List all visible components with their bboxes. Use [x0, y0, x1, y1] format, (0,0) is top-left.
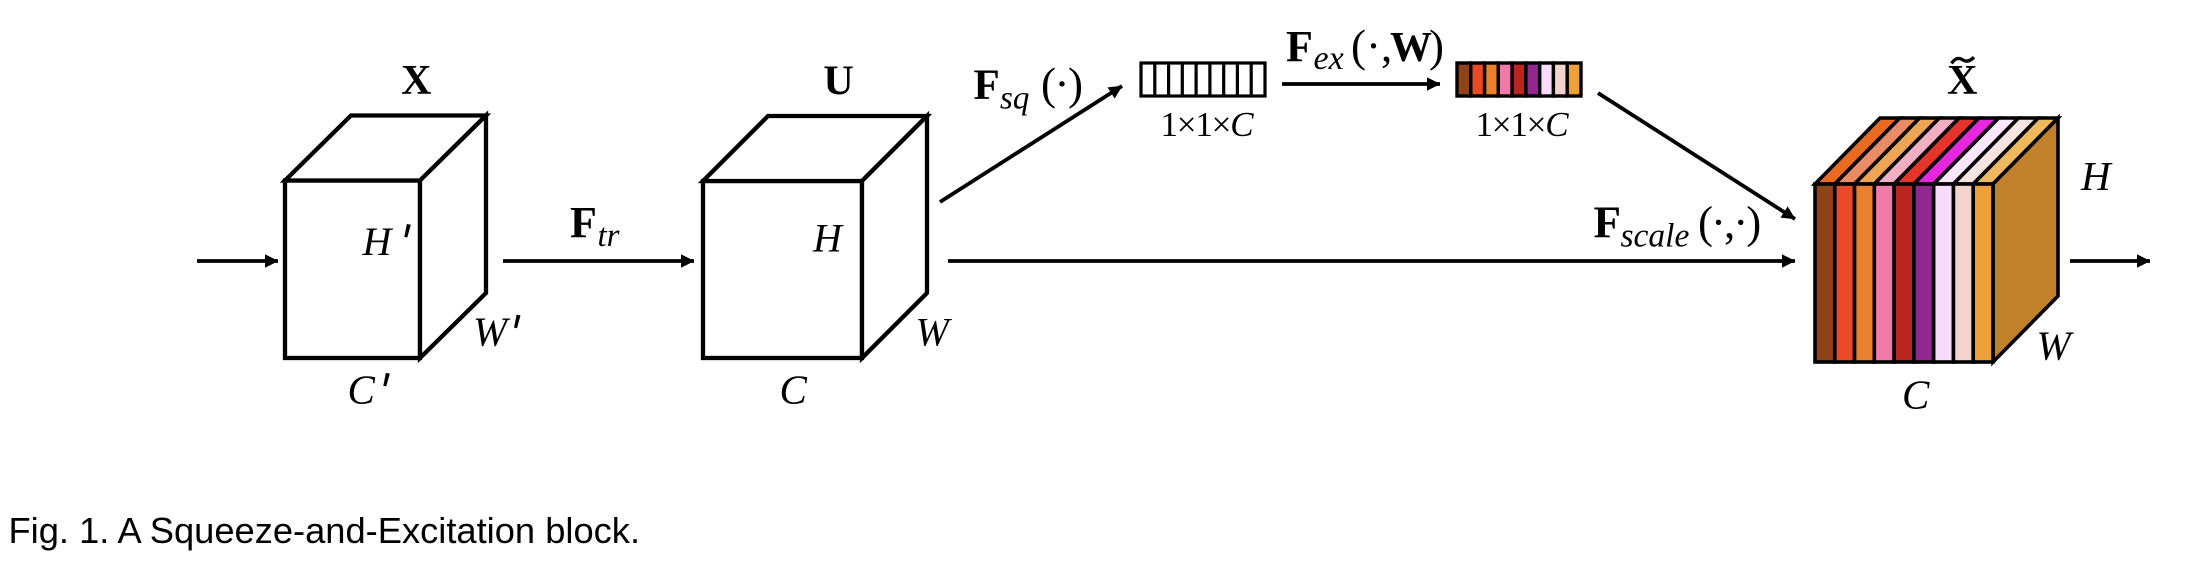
svg-text:W: W [1390, 25, 1432, 71]
svg-text:tr: tr [598, 218, 620, 254]
node X~: colored cube front face stripes [1815, 184, 1993, 362]
node X~: colored cube side face [1993, 118, 2058, 362]
svg-text:1×1×C: 1×1×C [1161, 105, 1255, 144]
node X: white cube side face [420, 116, 486, 359]
node X: white cube top face [285, 116, 486, 181]
svg-text:ex: ex [1314, 40, 1344, 77]
svg-text:): ) [1429, 21, 1444, 71]
wire: F_tr arrow [503, 259, 694, 263]
svg-text:(·): (·) [1041, 59, 1082, 109]
wire: input arrow into X [197, 259, 278, 263]
svg-text:C: C [348, 367, 376, 413]
svg-text:H: H [2080, 153, 2113, 199]
svg-text:F: F [974, 62, 1000, 109]
svg-text:X: X [1947, 58, 1977, 104]
svg-text:C: C [780, 367, 808, 413]
svg-text:W: W [473, 309, 511, 355]
svg-text:F: F [1286, 22, 1313, 71]
wire: F_ex arrow [1282, 82, 1440, 86]
svg-text:W: W [2037, 323, 2075, 369]
node excitation vector 1x1xC (colored) [1457, 63, 1581, 96]
svg-text:X: X [401, 58, 431, 104]
node U: white cube front face [703, 181, 862, 358]
node U: white cube side face [862, 116, 927, 358]
node U: white cube top face [703, 116, 927, 181]
svg-text:scale: scale [1621, 218, 1690, 255]
svg-text:F: F [570, 198, 597, 247]
svg-text:U: U [823, 59, 853, 105]
node X: white cube front face [285, 181, 420, 359]
svg-text:H: H [362, 219, 394, 264]
wire: diagonal arrow to colored cube [1598, 93, 1795, 219]
svg-text:F: F [1594, 198, 1622, 248]
svg-text:sq: sq [1000, 81, 1029, 117]
svg-text:1×1×C: 1×1×C [1476, 105, 1570, 144]
svg-text:W: W [916, 310, 953, 355]
wire: long F_scale arrow [948, 259, 1795, 263]
node X~: colored cube top face stripes [1815, 118, 2058, 184]
wire: F_sq arrow [940, 86, 1122, 202]
svg-text:(·,: (·, [1351, 21, 1392, 71]
wire: output arrow [2070, 259, 2150, 263]
svg-text:H: H [812, 216, 844, 261]
node squeeze vector 1x1xC (white) [1141, 63, 1265, 96]
svg-text:(·,·): (·,·) [1698, 198, 1760, 248]
svg-text:Fig. 1. A Squeeze-and-Excitati: Fig. 1. A Squeeze-and-Excitation block. [9, 510, 641, 551]
svg-text:C: C [1902, 372, 1930, 418]
